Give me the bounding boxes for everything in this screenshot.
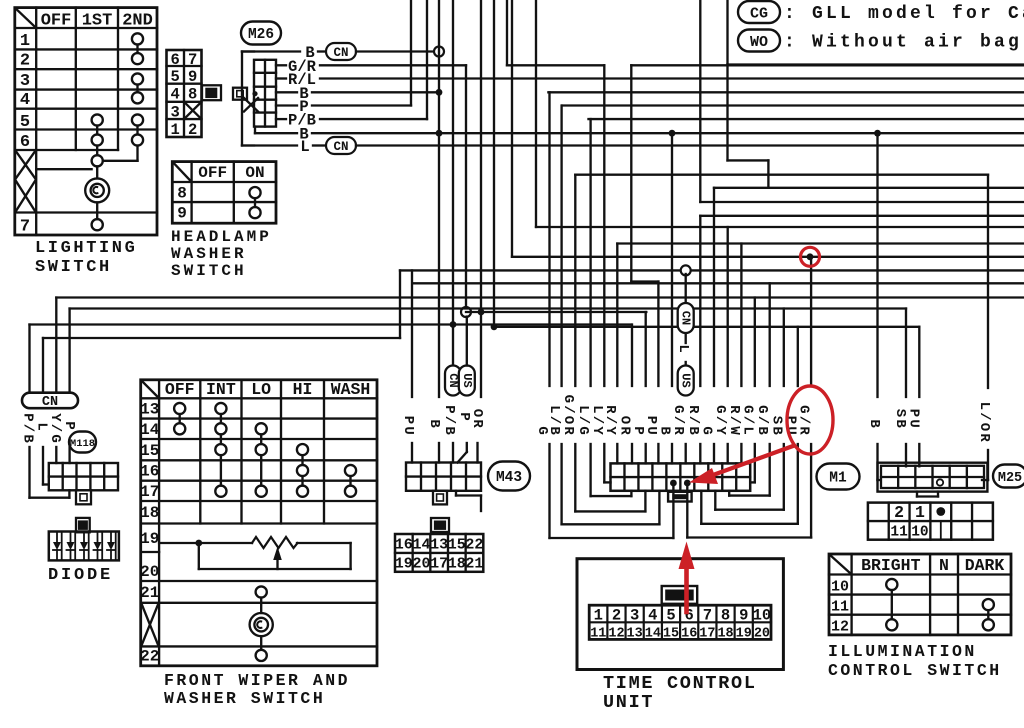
center connector pin dot A — [670, 480, 677, 487]
svg-text:HI: HI — [293, 380, 313, 399]
svg-text:3: 3 — [171, 103, 180, 121]
M25 wire SB — [905, 309, 907, 398]
lighting switch contact 2ND@140 — [132, 134, 143, 145]
wiper pot junction dot — [195, 540, 202, 547]
lighting switch X cell lower — [16, 180, 36, 212]
jog wire 727 — [726, 65, 728, 161]
connector M1 oval — [817, 464, 860, 490]
TCU key box — [662, 586, 698, 604]
M26 shell bracket — [241, 52, 243, 146]
svg-text:15: 15 — [448, 537, 466, 554]
headlamp washer table frame — [172, 162, 276, 224]
wiper contact 22 — [256, 650, 267, 661]
inline connector US (M43 P) — [459, 366, 475, 396]
wire P right run — [562, 104, 1024, 106]
svg-text:20: 20 — [140, 563, 159, 581]
M26 X mark — [244, 98, 258, 112]
M43 wire P diag — [466, 317, 468, 366]
wire P riser — [410, 0, 412, 106]
svg-text:1: 1 — [915, 503, 925, 522]
headlamp contact link — [254, 198, 256, 207]
CN bus P/B (to OR) — [30, 323, 632, 325]
svg-text:17: 17 — [140, 483, 159, 501]
wiper link LO 14-15 — [260, 434, 262, 444]
svg-text:M118: M118 — [70, 438, 95, 450]
svg-text:M43: M43 — [496, 470, 522, 486]
center wire L/Y side entry — [603, 65, 605, 386]
svg-text:1ST: 1ST — [82, 12, 113, 31]
svg-text:21: 21 — [140, 584, 159, 602]
wiper link HI 15-16 — [301, 455, 303, 465]
svg-text:12: 12 — [831, 618, 849, 635]
wire V536 hook — [535, 0, 537, 227]
CN lead Y/G down — [55, 447, 57, 463]
svg-text:14: 14 — [140, 421, 160, 439]
lighting switch contact 2ND@58.6 — [132, 53, 143, 64]
svg-text:5: 5 — [666, 607, 675, 625]
svg-text:4: 4 — [171, 86, 180, 104]
svg-text:DARK: DARK — [965, 556, 1005, 575]
pin grid X cell — [186, 103, 201, 117]
inline connector US (L-chain) — [678, 366, 694, 396]
svg-text:PU: PU — [400, 416, 416, 437]
lighting switch contact 1ST below6 — [92, 155, 103, 166]
wire R/L run to edge — [320, 77, 1024, 79]
connector M43 oval — [488, 462, 530, 491]
bus H256.8 — [512, 256, 1024, 258]
illumination contact D11 — [983, 599, 994, 610]
connector M26 oval — [241, 22, 281, 45]
M118 key tab — [76, 490, 91, 504]
center connector grid — [611, 476, 751, 478]
wiper table grid — [141, 397, 377, 399]
bus H227 — [536, 226, 1024, 228]
svg-text:G/B: G/B — [754, 405, 770, 437]
svg-text:R/B: R/B — [685, 405, 701, 437]
svg-text:16: 16 — [681, 627, 697, 642]
TCU pin strip grid — [589, 621, 771, 623]
svg-text:21: 21 — [465, 555, 483, 572]
illumination table frame — [829, 554, 1011, 635]
M43 pin table key tab — [431, 518, 449, 532]
svg-text:G: G — [699, 426, 715, 437]
svg-text:10: 10 — [753, 607, 772, 625]
splice open circle P-M43 — [461, 307, 471, 317]
illumination table grid — [850, 554, 852, 635]
center wire PU-R bracket — [797, 327, 799, 386]
M43 grid lines — [406, 475, 481, 477]
red arrow to pin — [706, 446, 793, 478]
svg-text:G/R: G/R — [670, 405, 686, 437]
lighting switch contact 1ST row6 — [92, 134, 103, 145]
center connector key tab — [668, 492, 692, 502]
illumination link D11-D12 — [987, 610, 989, 619]
lighting switch table frame — [15, 8, 157, 235]
lighting switch link 2ND 1-2 — [136, 45, 138, 54]
svg-text:17: 17 — [699, 627, 715, 642]
legend CG oval — [738, 1, 780, 23]
lighting switch contact 2ND@120 — [132, 114, 143, 125]
lighting switch pin grid lines — [183, 50, 185, 137]
wire V512 — [511, 0, 513, 257]
wiper contact LO@428.8 — [256, 423, 267, 434]
svg-text:B: B — [866, 419, 882, 430]
TCU pin strip frame — [589, 605, 771, 639]
center wire G/L side entry — [754, 298, 756, 387]
center wire R/W riser — [740, 244, 742, 387]
svg-text:M26: M26 — [248, 27, 274, 43]
M26 key tab — [233, 88, 247, 100]
svg-text:2: 2 — [894, 503, 904, 522]
M25 wire B — [876, 133, 878, 397]
svg-text:: Without air bag: : Without air bag — [784, 33, 1022, 53]
lighting switch link b6-lamp — [96, 166, 98, 178]
jog V400 — [399, 270, 401, 338]
lighting switch pin grid frame — [167, 50, 202, 137]
svg-text:SWITCH: SWITCH — [171, 262, 247, 280]
svg-text:18: 18 — [140, 504, 159, 522]
center wire G/Y riser — [727, 227, 729, 386]
svg-text:22: 22 — [140, 648, 159, 666]
wiper contact 21 — [256, 586, 267, 597]
svg-text:7: 7 — [703, 607, 712, 625]
center wire B riser — [671, 133, 673, 386]
illumination contact B12 — [886, 619, 897, 630]
lighting switch hook 2ND-to-1ST — [136, 146, 138, 161]
wiper contact OFF@428.8 — [174, 423, 185, 434]
svg-text:M1: M1 — [829, 471, 847, 487]
wiper pot loop — [349, 543, 351, 569]
junction dot V494/bus — [491, 323, 498, 330]
CN lead P/B down — [28, 447, 30, 498]
svg-text:11: 11 — [590, 627, 606, 642]
lighting switch link 2ND 5-6 — [136, 126, 138, 135]
wiper contact INT@408.5 — [215, 403, 226, 414]
svg-text:7: 7 — [188, 51, 197, 69]
wire L long run to edge — [356, 144, 1024, 146]
legend border — [726, 0, 728, 65]
lighting switch link 1ST 5-6 — [96, 126, 98, 135]
CN bus L — [43, 337, 400, 339]
svg-text:1: 1 — [20, 32, 30, 51]
svg-text:DIODE: DIODE — [48, 566, 113, 585]
svg-text:19: 19 — [395, 555, 413, 572]
M25 pin table tick — [940, 521, 942, 540]
svg-text:L/B: L/B — [546, 405, 562, 437]
svg-text:CN: CN — [333, 140, 348, 154]
wire V453 (P/B to M43) — [452, 0, 454, 366]
wire B2 run — [312, 91, 439, 93]
bus H270.4 — [400, 269, 1024, 271]
bus H187.8 — [714, 187, 1024, 189]
M25 connector shell — [878, 463, 988, 492]
wiper contact LO@491.2 — [256, 486, 267, 497]
center wire OR riser — [631, 325, 633, 387]
svg-text:3: 3 — [630, 607, 639, 625]
wire V494 — [493, 0, 495, 327]
svg-text:OFF: OFF — [41, 12, 72, 31]
svg-text:10: 10 — [831, 579, 849, 596]
center wire R/B riser — [699, 216, 701, 386]
center wire G riser — [713, 188, 715, 386]
svg-text:2: 2 — [20, 52, 30, 71]
svg-text:FRONT WIPER AND: FRONT WIPER AND — [164, 671, 350, 690]
M25 pin table grid — [868, 520, 993, 522]
splice open circle on V439 — [434, 47, 444, 57]
svg-text:18: 18 — [717, 627, 733, 642]
wiper link LO 15-17 — [260, 455, 262, 485]
center wire PU riser — [657, 282, 659, 387]
svg-text:WO: WO — [750, 34, 768, 51]
center connector frame — [611, 463, 751, 490]
svg-text:18: 18 — [448, 555, 466, 572]
svg-text:8: 8 — [721, 607, 730, 625]
lighting switch link 2ND 3-4 — [136, 85, 138, 93]
svg-text:P/B: P/B — [441, 405, 457, 437]
wire B3 stub — [254, 127, 256, 134]
legend WO oval — [738, 30, 780, 52]
headlamp washer grid — [190, 162, 192, 224]
svg-text:2: 2 — [612, 607, 621, 625]
headlamp contact 9-ON — [249, 207, 260, 218]
svg-text:13: 13 — [140, 401, 159, 419]
svg-text:PU: PU — [643, 416, 659, 437]
svg-text:6: 6 — [20, 133, 30, 152]
red ellipse annotation — [787, 386, 833, 454]
svg-text:8: 8 — [188, 86, 197, 104]
wiper contact HI@449.6 — [297, 444, 308, 455]
svg-text:9: 9 — [188, 68, 197, 86]
wiper X cell — [141, 604, 158, 646]
wiper contact INT@428.8 — [215, 423, 226, 434]
svg-text:14: 14 — [412, 537, 430, 554]
svg-text:L/OR: L/OR — [976, 402, 992, 444]
svg-text:R/Y: R/Y — [602, 405, 618, 437]
svg-text:CN: CN — [42, 395, 58, 410]
svg-text:9: 9 — [177, 205, 187, 223]
M43 key tab — [433, 491, 447, 505]
splice open circle L-chain — [681, 265, 691, 275]
lighting switch header diagonal — [16, 8, 37, 28]
M25 pin table frame — [868, 503, 993, 540]
svg-text:G/R: G/R — [796, 405, 812, 437]
M25 connector grid — [881, 476, 984, 478]
wiper contact INT@449.6 — [215, 444, 226, 455]
svg-text:20: 20 — [412, 555, 430, 572]
svg-text:ILLUMINATION: ILLUMINATION — [828, 642, 977, 661]
wiper contact LO@449.6 — [256, 444, 267, 455]
wire B2 right run — [548, 91, 1024, 93]
svg-text:20: 20 — [754, 627, 770, 642]
svg-text:SWITCH: SWITCH — [35, 258, 112, 277]
svg-text:4: 4 — [648, 607, 657, 625]
M25 connector notch — [916, 492, 918, 497]
svg-text:5: 5 — [171, 68, 180, 86]
lighting switch contact 1ST row7 — [92, 219, 103, 230]
lighting switch contact 2ND@38.9 — [132, 33, 143, 44]
svg-text:US: US — [460, 373, 474, 387]
wiper link WASH 16-17 — [349, 476, 351, 486]
wiper link 21-motor — [260, 598, 262, 613]
M43 grid frame — [406, 463, 481, 491]
svg-text:19: 19 — [140, 530, 159, 548]
M26 grid frame — [254, 60, 276, 127]
wire G/R stub — [276, 64, 286, 66]
center wire G/OR bracket — [574, 175, 576, 386]
wire P/B riser — [426, 0, 428, 119]
svg-text:12: 12 — [608, 627, 624, 642]
svg-text:PU: PU — [906, 409, 922, 430]
wire P stub — [276, 104, 297, 106]
svg-text:6: 6 — [171, 51, 180, 69]
junction dot bus256/G-R drop — [807, 253, 814, 260]
svg-text:N: N — [939, 556, 949, 575]
svg-text:5: 5 — [20, 113, 30, 132]
M25 connector marker circle — [937, 479, 943, 485]
svg-text:: GLL model for Ca: : GLL model for Ca — [784, 4, 1024, 24]
svg-text:2: 2 — [188, 121, 197, 139]
bus H174.7 (L/OR feed) — [575, 174, 988, 176]
svg-text:P: P — [61, 421, 77, 432]
svg-text:8: 8 — [177, 185, 187, 203]
svg-text:CN: CN — [679, 311, 693, 325]
diode block — [49, 532, 119, 561]
M43 pin table grid — [395, 552, 483, 554]
wire V481 (OR to M43) — [480, 0, 482, 397]
junction dot B riser — [669, 130, 676, 137]
svg-text:L/G: L/G — [575, 405, 591, 437]
wiper link HI 16-17 — [301, 476, 303, 486]
wire L-chain drop — [685, 274, 687, 303]
wire L stub — [242, 144, 297, 146]
svg-text:11: 11 — [831, 599, 849, 616]
connector M25 oval — [993, 465, 1024, 488]
wiper contact HI@491.2 — [297, 486, 308, 497]
svg-text:G/L: G/L — [739, 405, 755, 437]
svg-text:M25: M25 — [998, 471, 1022, 486]
svg-text:G/Y: G/Y — [712, 405, 728, 437]
center PU jog — [630, 65, 632, 281]
center wire G/B bracket — [769, 283, 771, 386]
illumination link B10-B12 — [891, 590, 893, 619]
svg-text:OR: OR — [617, 416, 633, 437]
lighting switch grid lines — [15, 27, 157, 29]
svg-text:L: L — [675, 344, 691, 355]
illumination header diagonal — [830, 555, 852, 575]
wiper link motor-22 — [260, 636, 262, 650]
svg-text:14: 14 — [645, 627, 661, 642]
CN lead L down — [42, 447, 44, 485]
svg-text:22: 22 — [465, 537, 483, 554]
svg-text:UNIT: UNIT — [603, 692, 654, 713]
center wire SB bracket — [783, 309, 785, 387]
wire G/R run — [320, 64, 466, 66]
svg-text:TIME CONTROL: TIME CONTROL — [603, 673, 757, 694]
svg-text:G/OR: G/OR — [560, 395, 576, 437]
svg-text:WASHER SWITCH: WASHER SWITCH — [164, 689, 325, 708]
wiper table frame — [141, 380, 377, 666]
M25 connector frame — [881, 466, 984, 488]
headlamp header diagonal — [173, 162, 192, 182]
svg-text:US: US — [679, 373, 693, 387]
svg-text:CONTROL SWITCH: CONTROL SWITCH — [828, 661, 1002, 680]
svg-text:1: 1 — [594, 607, 603, 625]
svg-text:B: B — [657, 426, 673, 437]
lighting switch link lamp-7 — [96, 202, 98, 219]
center wire R/Y riser — [616, 244, 618, 387]
wiper header diagonal — [141, 381, 159, 399]
lighting switch contact 2ND@79 — [132, 73, 143, 84]
M26 grid lines — [264, 60, 266, 127]
wire V507 hook — [506, 0, 508, 65]
wiper link INT 13-14 — [220, 414, 222, 423]
svg-text:9: 9 — [739, 607, 748, 625]
junction dot B3/V439 — [436, 130, 443, 137]
bus H326.8 (to M25 PU) — [494, 326, 919, 328]
lighting switch inner line — [36, 168, 91, 170]
wire B3 long run — [312, 132, 1024, 134]
center wire P riser — [645, 312, 647, 386]
CN bus P (to M25 SB) — [70, 307, 906, 309]
center wire L/G bracket — [589, 119, 591, 386]
svg-text:P/B: P/B — [20, 413, 36, 445]
wire R/L stub — [276, 77, 286, 79]
svg-text:BRIGHT: BRIGHT — [861, 556, 921, 575]
M43 under stub — [455, 491, 457, 496]
wiper contact OFF@408.5 — [174, 403, 185, 414]
wire B1 stub — [242, 50, 300, 52]
wiper link INT 15-17 — [220, 455, 222, 485]
svg-text:4: 4 — [20, 91, 30, 110]
svg-text:L: L — [300, 138, 309, 156]
wiper link INT 14-15 — [220, 434, 222, 444]
svg-text:15: 15 — [663, 627, 679, 642]
svg-text:2ND: 2ND — [122, 12, 153, 31]
wire L to CN — [313, 144, 326, 146]
junction dot V453/bus — [450, 321, 457, 328]
svg-text:17: 17 — [430, 555, 448, 572]
connector CN stadium — [22, 393, 78, 409]
center pin drop left — [672, 483, 674, 538]
wire P run — [312, 104, 411, 106]
wiper contact WASH@470.5 — [345, 465, 356, 476]
wiper link OFF 13-14 — [179, 414, 181, 423]
bus H202 — [700, 201, 1024, 203]
svg-text:WASH: WASH — [331, 380, 371, 399]
svg-text:HEADLAMP: HEADLAMP — [171, 228, 272, 246]
svg-text:CN: CN — [333, 46, 348, 60]
red circle annotation — [801, 247, 820, 266]
svg-text:19: 19 — [736, 627, 752, 642]
wire P/B run — [320, 118, 427, 120]
M26 pin dot — [252, 91, 257, 96]
bus H312 (P link) — [466, 311, 646, 313]
wire P/B stub — [276, 118, 286, 120]
wiper contact HI@470.5 — [297, 465, 308, 476]
svg-text:OFF: OFF — [165, 380, 195, 399]
svg-text:13: 13 — [430, 537, 448, 554]
svg-text:10: 10 — [911, 525, 928, 541]
wire B1 to CN — [318, 50, 326, 52]
M25 wire L/OR — [987, 175, 989, 388]
svg-text:INT: INT — [206, 380, 236, 399]
red arrow TCU — [684, 563, 689, 612]
inline connector CN (B1) — [326, 43, 356, 60]
wire V700 hook — [699, 0, 701, 202]
wiper pot main line — [159, 542, 252, 544]
center wire L/B bracket — [560, 106, 562, 387]
center wire G bracket — [548, 92, 550, 386]
